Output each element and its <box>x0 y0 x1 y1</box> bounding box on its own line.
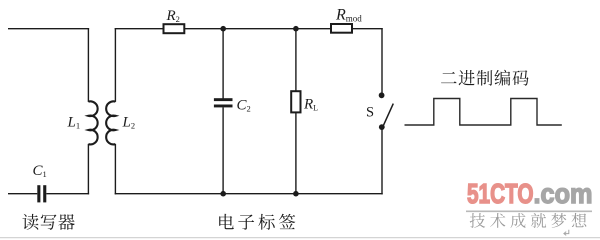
watermark return mark <box>564 230 569 236</box>
switch S blade <box>383 104 393 127</box>
resistor RL <box>291 91 300 112</box>
wire top rail right segment <box>352 28 383 30</box>
node junction top RL <box>293 26 299 32</box>
capacitor C1 <box>37 185 40 202</box>
watermark divider line <box>466 210 592 212</box>
label reader caption 读写器 <box>22 214 38 230</box>
node junction bottom RL <box>293 191 299 197</box>
wire reader top horizontal <box>8 28 89 30</box>
wire tag left vertical top (to L2) <box>114 28 116 102</box>
wire top rail middle segment <box>184 28 331 30</box>
inductor L1 <box>88 101 97 144</box>
label tag caption 电子标签 <box>219 214 234 230</box>
label binary-code caption 二进制编码 <box>441 72 457 83</box>
wire right vertical to switch <box>381 28 383 96</box>
svg-text:RL: RL <box>303 97 318 113</box>
wire reader left vertical top (to L1) <box>87 28 89 102</box>
resistor Rmod <box>331 24 352 33</box>
svg-text:C2: C2 <box>237 98 251 114</box>
wire reader bottom left segment <box>8 193 37 195</box>
wire C2 branch top <box>222 29 224 99</box>
svg-text:L1: L1 <box>67 115 81 131</box>
watermark slogan 技术成就梦想 <box>470 213 485 228</box>
wire top rail left segment <box>115 28 164 30</box>
waveform binary code signal <box>405 99 562 126</box>
node switch top <box>379 92 385 98</box>
wire reader left vertical bottom (L1 to C1 wire) <box>87 144 89 195</box>
svg-text:C1: C1 <box>33 163 47 179</box>
wire switch bottom vertical <box>381 128 383 195</box>
wire RL branch top <box>295 29 297 91</box>
wire reader bottom right segment <box>46 193 89 195</box>
node switch bottom <box>379 124 385 130</box>
node junction top C2 <box>220 26 226 32</box>
wire bottom rail <box>115 193 383 195</box>
svg-text:S: S <box>366 105 374 121</box>
node junction bottom C2 <box>220 191 226 197</box>
wire RL branch bottom <box>295 112 297 193</box>
svg-text:L2: L2 <box>122 115 136 131</box>
wire tag left vertical bottom <box>114 144 116 195</box>
capacitor C2 <box>214 98 233 101</box>
svg-text:R2: R2 <box>166 8 180 24</box>
bottom border line <box>0 237 600 239</box>
inductor L2 <box>106 101 115 144</box>
svg-text:Rmod: Rmod <box>335 7 362 24</box>
svg-text:51CTO.com: 51CTO.com <box>467 178 593 209</box>
resistor R2 <box>164 24 185 33</box>
wire C2 branch bottom <box>222 107 224 193</box>
